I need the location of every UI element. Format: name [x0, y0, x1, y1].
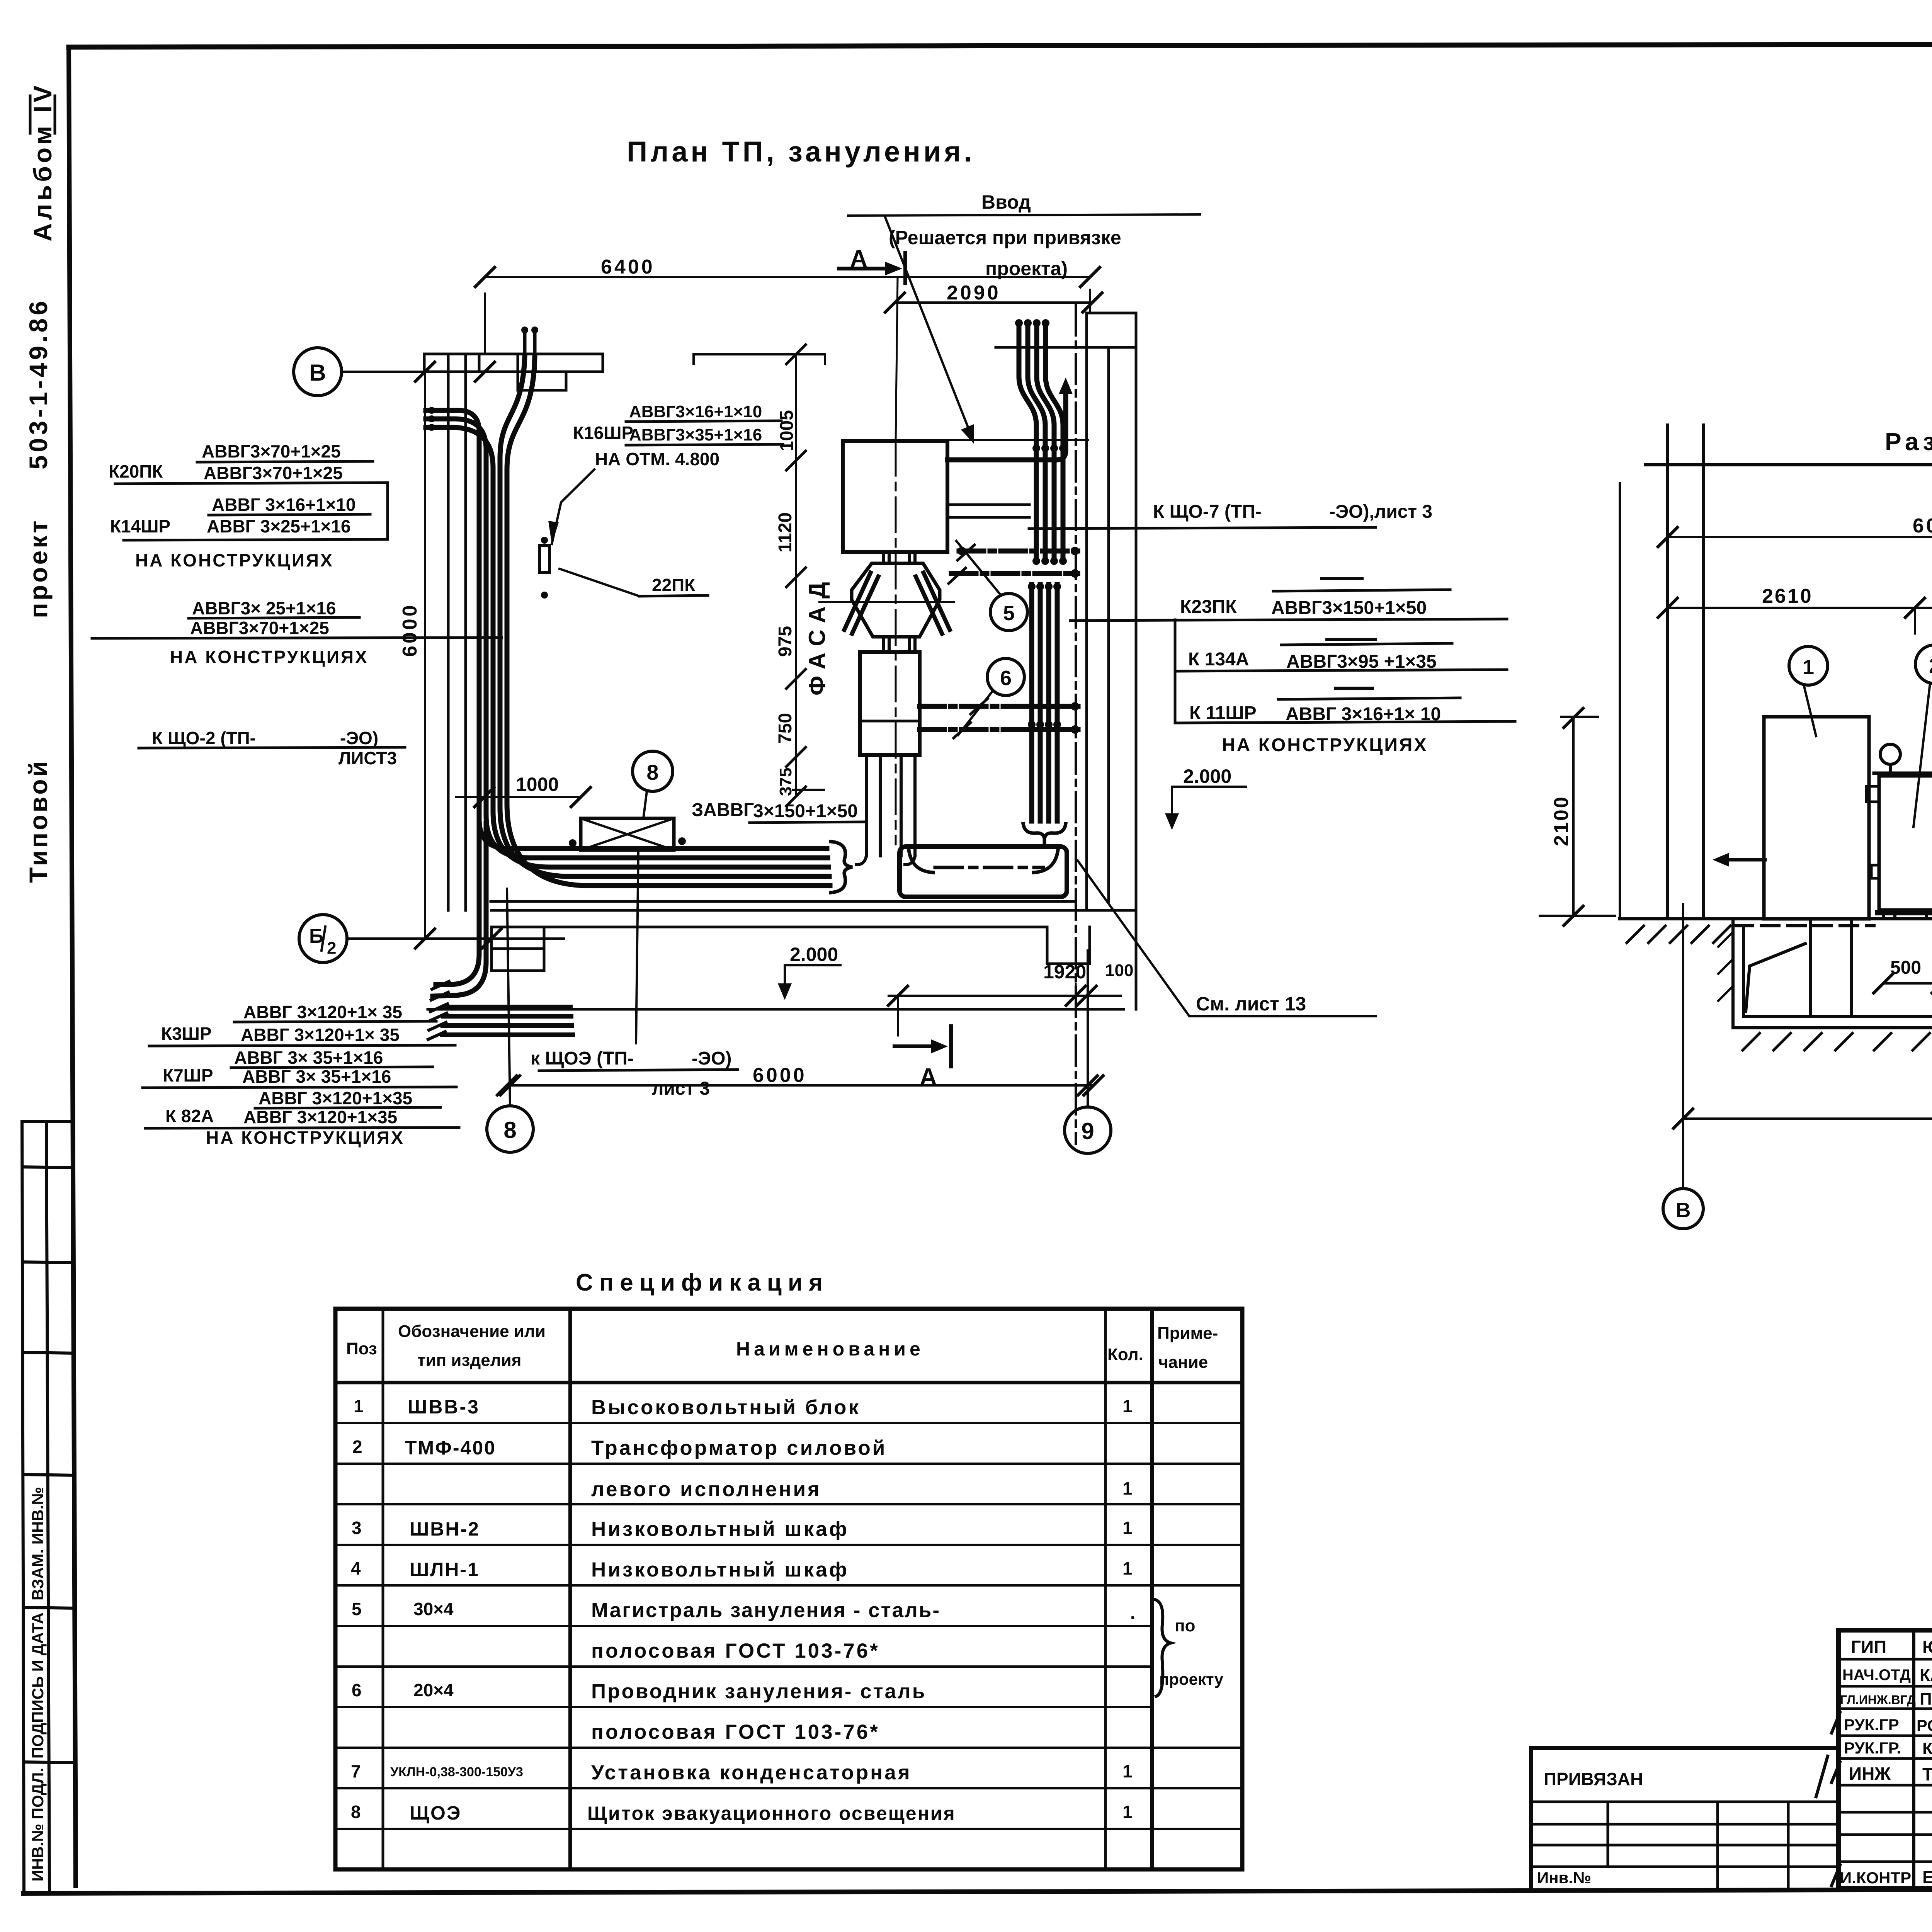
grid circle B/2	[299, 915, 347, 963]
svg-text:-ЭО): -ЭО)	[692, 1048, 731, 1069]
svg-text:по: по	[1175, 1616, 1195, 1635]
svg-text:1: 1	[1122, 1761, 1133, 1781]
svg-text:ШЛН-1: ШЛН-1	[410, 1559, 480, 1580]
svg-text:АВВГ3×16+1×10: АВВГ3×16+1×10	[629, 402, 762, 421]
svg-text:ИНЖ: ИНЖ	[1849, 1764, 1891, 1784]
svg-text:1005: 1005	[777, 410, 797, 451]
condenser rounded box	[900, 847, 1067, 897]
svg-text:К20ПК: К20ПК	[109, 461, 163, 481]
svg-text:КАГАН: КАГАН	[1922, 1739, 1932, 1758]
table outer border	[335, 1309, 1242, 1869]
svg-text:503-1-49.86: 503-1-49.86	[24, 298, 53, 469]
svg-text:полосовая ГОСТ 103-76*: полосовая ГОСТ 103-76*	[591, 1639, 880, 1662]
svg-text:2: 2	[352, 1437, 362, 1457]
svg-text:ТОИДЗЕ: ТОИДЗЕ	[1922, 1764, 1932, 1784]
svg-text:30×4: 30×4	[413, 1599, 454, 1619]
svg-text:ПАНКИН: ПАНКИН	[1920, 1690, 1932, 1709]
floor line	[1620, 917, 1932, 920]
dim 6000 bottom	[507, 1084, 1094, 1087]
svg-text:АВВГ 3×120+1×35: АВВГ 3×120+1×35	[259, 1088, 412, 1108]
svg-text:6: 6	[1000, 667, 1012, 690]
svg-text:750: 750	[775, 713, 796, 744]
svg-text:375: 375	[776, 768, 795, 796]
unit ShVV-3 block	[843, 441, 947, 552]
svg-text:РОМАНЕНКО: РОМАНЕНКО	[1917, 1716, 1932, 1735]
wall bottom outer line	[428, 1008, 1124, 1011]
svg-text:5: 5	[1003, 602, 1015, 625]
unit 1 high-voltage block	[1764, 717, 1869, 919]
svg-text:ЮРИН: ЮРИН	[1922, 1637, 1932, 1657]
svg-text:АВВГ 3×120+1×35: АВВГ 3×120+1×35	[243, 1107, 397, 1127]
svg-text:-ЭО): -ЭО)	[340, 728, 378, 748]
svg-text:АВВГ 3× 35+1×16: АВВГ 3× 35+1×16	[242, 1066, 391, 1087]
sheet left border	[69, 47, 76, 1886]
svg-text:НА КОНСТРУКЦИЯХ: НА КОНСТРУКЦИЯХ	[206, 1128, 405, 1148]
gather brace right	[831, 842, 852, 893]
svg-text:1: 1	[1122, 1396, 1133, 1416]
svg-text:Трансформатор силовой: Трансформатор силовой	[591, 1437, 887, 1459]
dim 1000	[456, 796, 581, 798]
svg-text:Альбом IV: Альбом IV	[28, 82, 57, 241]
transformer axis horizontal	[819, 601, 954, 603]
svg-text:Низковольтный шкаф: Низковольтный шкаф	[591, 1558, 849, 1581]
svg-text:6: 6	[352, 1680, 362, 1700]
SECTION	[1540, 425, 1932, 1229]
svg-text:Поз: Поз	[346, 1339, 377, 1358]
svg-text:Щиток эвакуационного освещен: Щиток эвакуационного освещения	[587, 1803, 956, 1824]
pit bottom hatch	[1743, 1033, 1932, 1050]
brace under lower bundle	[1023, 824, 1066, 838]
axis dash-dot right	[1075, 305, 1077, 1144]
axis line V	[1682, 904, 1684, 1189]
svg-text:ШВВ-3: ШВВ-3	[408, 1396, 480, 1418]
svg-text:2: 2	[1929, 654, 1932, 677]
svg-text:2610: 2610	[1762, 585, 1813, 607]
svg-text:АВВГ 3× 35+1×16: АВВГ 3× 35+1×16	[234, 1048, 383, 1068]
floor hatch left	[1627, 926, 1730, 943]
svg-text:6000: 6000	[753, 1064, 807, 1087]
pos circle 1	[1789, 646, 1828, 685]
duct pipes down	[866, 755, 915, 856]
svg-text:1120: 1120	[775, 512, 796, 553]
dim 6000 section	[1683, 1117, 1932, 1120]
svg-text:Установка конденсаторная: Установка конденсаторная	[591, 1761, 912, 1784]
svg-text:К16ШР: К16ШР	[573, 423, 633, 443]
SPECTABLE	[335, 1269, 1242, 1869]
svg-text:И.КОНТР: И.КОНТР	[1840, 1869, 1911, 1887]
svg-text:-ЭО),лист 3: -ЭО),лист 3	[1329, 502, 1432, 522]
svg-text:чание: чание	[1158, 1353, 1208, 1372]
cable dots top left	[428, 407, 435, 414]
lower left exit bundle	[442, 1007, 573, 1035]
wall bottom band	[491, 901, 1136, 927]
pos circle 2	[1915, 645, 1932, 684]
svg-text:3: 3	[352, 1518, 362, 1538]
section mark A top	[839, 267, 885, 270]
wall left verticals	[448, 354, 466, 910]
wall right band	[996, 313, 1136, 1009]
svg-text:АВВГ 3×25+1×16: АВВГ 3×25+1×16	[207, 516, 351, 536]
svg-text:К ЩО-2 (ТП-: К ЩО-2 (ТП-	[152, 728, 256, 748]
dim 1920 and 100	[889, 995, 1121, 997]
svg-text:КАЛГАНОВ: КАЛГАНОВ	[1920, 1666, 1932, 1685]
svg-text:ГЛ.ИНЖ.ВГД: ГЛ.ИНЖ.ВГД	[1840, 1693, 1916, 1707]
svg-text:НА КОНСТРУКЦИЯХ: НА КОНСТРУКЦИЯХ	[1222, 735, 1428, 755]
svg-text:К23ПК: К23ПК	[1180, 597, 1237, 617]
left cable bundle	[426, 410, 827, 849]
column lines	[382, 1309, 384, 1869]
grid circle V	[294, 348, 342, 396]
dim 6020	[1668, 536, 1932, 538]
transformer TMF-400	[852, 563, 940, 637]
label box connector	[386, 483, 389, 539]
grid circle 8 axis	[487, 1106, 533, 1152]
transformer fins right	[916, 573, 950, 634]
svg-text:1: 1	[1122, 1518, 1133, 1538]
svg-text:проекта): проекта)	[985, 258, 1068, 279]
annex table priviazan	[1531, 1748, 1838, 1888]
svg-text:НА ОТМ. 4.800: НА ОТМ. 4.800	[595, 449, 719, 469]
svg-text:АВВГ3×35+1×16: АВВГ3×35+1×16	[629, 425, 762, 444]
svg-text:Проводник зануления- сталь: Проводник зануления- сталь	[591, 1680, 926, 1703]
svg-text:ПРИВЯЗАН: ПРИВЯЗАН	[1544, 1769, 1643, 1789]
svg-text:ЗАВВГ: ЗАВВГ	[692, 800, 754, 820]
row lines	[335, 1423, 1242, 1829]
svg-text:Разрез А-А: Разрез А-А	[1885, 428, 1932, 456]
svg-text:ГИП: ГИП	[1851, 1637, 1886, 1657]
ground L conductor	[947, 394, 1066, 460]
svg-text:7: 7	[351, 1761, 361, 1781]
svg-text:АВВГ 3×120+1× 35: АВВГ 3×120+1× 35	[241, 1025, 400, 1045]
svg-text:проект: проект	[24, 518, 53, 618]
strip row lines	[22, 1120, 73, 1123]
svg-text:План ТП, зануления.: План ТП, зануления.	[627, 136, 975, 168]
svg-text:2100: 2100	[1550, 795, 1573, 846]
svg-text:Спецификация: Спецификация	[576, 1269, 829, 1296]
svg-text:лист 3: лист 3	[652, 1078, 710, 1099]
svg-text:Обозначение или: Обозначение или	[398, 1322, 546, 1341]
dim 6000 left vertical	[424, 372, 426, 939]
neck posts lower	[884, 637, 915, 652]
svg-text:Приме-: Приме-	[1157, 1324, 1218, 1343]
svg-text:1: 1	[1803, 656, 1814, 679]
svg-text:К14ШР: К14ШР	[110, 516, 170, 536]
ceiling line	[1645, 455, 1932, 474]
neck posts upper	[884, 552, 915, 563]
svg-text:1: 1	[1122, 1478, 1133, 1498]
svg-text:Наименование: Наименование	[736, 1338, 924, 1360]
svg-text:ВЗАМ. ИНВ.№: ВЗАМ. ИНВ.№	[29, 1487, 47, 1600]
svg-text:А: А	[850, 245, 867, 272]
svg-text:2: 2	[327, 939, 336, 957]
personnel table frame	[1838, 1630, 1932, 1888]
svg-text:ФАСАД: ФАСАД	[804, 575, 830, 696]
svg-text:5: 5	[352, 1599, 362, 1619]
svg-text:левого исполнения: левого исполнения	[591, 1478, 821, 1501]
dim row 2610 1613 995 500	[1668, 607, 1932, 609]
vertical dim chain	[795, 354, 797, 796]
svg-text:АВВГ3×70+1×25: АВВГ3×70+1×25	[190, 618, 329, 638]
section line through plan	[896, 277, 898, 441]
bundle exit bottom left	[436, 819, 479, 985]
svg-text:1: 1	[1122, 1802, 1133, 1822]
vvod leader diagonal	[885, 216, 968, 427]
wall riser stubs	[525, 332, 535, 354]
dim 2090	[895, 301, 1092, 304]
cable pit	[1733, 919, 1932, 1028]
svg-text:к ЩОЭ (ТП-: к ЩОЭ (ТП-	[531, 1048, 634, 1069]
svg-text:1: 1	[354, 1396, 364, 1416]
svg-text:полосовая ГОСТ 103-76*: полосовая ГОСТ 103-76*	[591, 1721, 880, 1743]
svg-text:2.000: 2.000	[790, 944, 838, 965]
crossed box SchOE	[581, 818, 674, 850]
svg-text:тип изделия: тип изделия	[417, 1351, 521, 1370]
unit 2 transformer	[1874, 772, 1932, 775]
steel strip pair 1	[959, 549, 1078, 554]
dim 6400	[485, 276, 1090, 278]
svg-text:Магистраль зануления - сталь-: Магистраль зануления - сталь-	[591, 1599, 940, 1622]
svg-text:8: 8	[351, 1802, 361, 1822]
svg-text:См. лист 13: См. лист 13	[1196, 993, 1306, 1015]
pit ramp	[1746, 944, 1805, 1012]
svg-text:4: 4	[351, 1558, 361, 1578]
svg-text:Высоковольтный блок: Высоковольтный блок	[591, 1396, 861, 1419]
center line vertical	[895, 441, 897, 844]
svg-text:Ввод: Ввод	[981, 191, 1031, 213]
svg-text:проекту: проекту	[1159, 1670, 1224, 1688]
svg-text:ТМФ-400: ТМФ-400	[405, 1437, 496, 1459]
svg-text:1920: 1920	[1043, 961, 1086, 983]
svg-text:УКЛН-0,38-300-150У3: УКЛН-0,38-300-150У3	[390, 1765, 523, 1779]
svg-text:АВВГ3×150+1×50: АВВГ3×150+1×50	[1271, 598, 1427, 618]
pos bubble 5	[990, 594, 1027, 631]
svg-text:8: 8	[503, 1117, 516, 1143]
svg-text:АВВГ3×70+1×25: АВВГ3×70+1×25	[204, 463, 343, 483]
sheet bottom border	[23, 1888, 1932, 1893]
svg-text:В: В	[1676, 1199, 1691, 1222]
PLANLEFTLABELS	[92, 402, 783, 1148]
wall top notch	[518, 372, 566, 390]
sm list 13 leader	[1078, 861, 1376, 1016]
svg-text:.: .	[1130, 1603, 1135, 1623]
lower riser bundle	[1032, 585, 1057, 821]
leading slashes	[1832, 1713, 1840, 1886]
steel strip pair 2	[920, 704, 1078, 709]
K ShO-7 riser bundle	[1036, 448, 1063, 561]
twin links to riser	[947, 505, 1029, 517]
svg-text:9: 9	[1081, 1118, 1094, 1144]
svg-text:АВВГ 3×120+1× 35: АВВГ 3×120+1× 35	[243, 1002, 402, 1022]
svg-text:2.000: 2.000	[1183, 765, 1231, 787]
label boxes verticals	[1174, 620, 1177, 722]
svg-text:Инв.№: Инв.№	[1537, 1869, 1591, 1887]
PLANTITLE	[627, 136, 975, 168]
left wall	[1668, 425, 1703, 919]
svg-text:100: 100	[1105, 961, 1133, 980]
22PK connector box	[539, 546, 549, 573]
svg-text:ЩОЭ: ЩОЭ	[410, 1802, 461, 1824]
section mark A bottom	[895, 1044, 931, 1048]
svg-text:Типовой: Типовой	[24, 759, 53, 883]
svg-text:6000: 6000	[399, 603, 421, 657]
TITLEBLOCK	[1531, 1630, 1932, 1923]
svg-text:ИНВ.№ ПОДЛ.: ИНВ.№ ПОДЛ.	[29, 1768, 47, 1881]
svg-text:(Решается при привязке: (Решается при привязке	[889, 227, 1121, 248]
svg-text:К 82А: К 82А	[165, 1106, 214, 1126]
grid circle V section	[1663, 1189, 1703, 1229]
wall bottom right step	[1047, 927, 1090, 964]
svg-text:АВВГ3×70+1×25: АВВГ3×70+1×25	[202, 441, 341, 461]
svg-text:ШВН-2: ШВН-2	[410, 1518, 480, 1540]
svg-text:РУК.ГР.: РУК.ГР.	[1844, 1739, 1901, 1757]
dim 2100 vertical	[1572, 718, 1575, 916]
primechanie brace	[1155, 1600, 1171, 1696]
svg-text:НА КОНСТРУКЦИЯХ: НА КОНСТРУКЦИЯХ	[135, 550, 334, 570]
unit ShVN block	[860, 652, 920, 755]
svg-text:К3ШР: К3ШР	[161, 1024, 212, 1044]
svg-text:975: 975	[775, 626, 796, 657]
svg-text:К7ШР: К7ШР	[163, 1065, 213, 1085]
svg-text:Низковольтный шкаф: Низковольтный шкаф	[591, 1518, 849, 1541]
header row line	[335, 1381, 1242, 1384]
grid circle 9 axis	[1065, 1107, 1111, 1153]
transformer fins left	[844, 573, 878, 634]
wall top band	[424, 354, 603, 372]
svg-text:ЛИСТ3: ЛИСТ3	[338, 748, 397, 768]
svg-text:8: 8	[646, 760, 658, 784]
PLANRIGHTLABELS	[848, 191, 1515, 1015]
pos bubble 6	[987, 658, 1024, 696]
PLANDRAW	[294, 216, 1376, 1153]
svg-text:НА КОНСТРУКЦИЯХ: НА КОНСТРУКЦИЯХ	[170, 647, 369, 667]
left inventory strip outer column	[22, 1122, 24, 1893]
svg-text:К 134А: К 134А	[1188, 649, 1249, 670]
K16ShR leader arrow	[552, 469, 594, 544]
svg-text:1000: 1000	[516, 774, 559, 795]
svg-text:В: В	[309, 360, 326, 386]
svg-text:ЕСИНА: ЕСИНА	[1922, 1867, 1932, 1887]
svg-text:Кол.: Кол.	[1107, 1345, 1143, 1364]
svg-text:ПОДПИСЬ И ДАТА: ПОДПИСЬ И ДАТА	[29, 1612, 47, 1759]
svg-text:РУК.ГР: РУК.ГР	[1844, 1716, 1899, 1734]
svg-text:6020: 6020	[1913, 515, 1932, 537]
wall bottom left step	[492, 927, 544, 971]
svg-text:3×150+1×50: 3×150+1×50	[753, 801, 858, 821]
svg-text:1: 1	[1122, 1558, 1133, 1578]
svg-text:500: 500	[1890, 957, 1921, 978]
pos 8 bubble	[633, 751, 673, 791]
svg-text:АВВГ 3×16+1×10: АВВГ 3×16+1×10	[212, 495, 356, 515]
svg-text:2090: 2090	[947, 282, 1001, 304]
svg-text:20×4: 20×4	[413, 1680, 454, 1700]
svg-text:6400: 6400	[601, 256, 655, 278]
arrow dash-dot left	[1729, 858, 1765, 862]
svg-text:22ПК: 22ПК	[652, 575, 696, 595]
sheet top border	[69, 43, 1932, 47]
svg-text:К ЩО-7 (ТП-: К ЩО-7 (ТП-	[1153, 502, 1262, 522]
svg-text:НАЧ.ОТД: НАЧ.ОТД	[1842, 1667, 1911, 1684]
svg-text:К 11ШР: К 11ШР	[1189, 703, 1257, 723]
vvod S-bundle	[1019, 325, 1036, 444]
svg-text:АВВГ3× 25+1×16: АВВГ3× 25+1×16	[192, 598, 336, 618]
